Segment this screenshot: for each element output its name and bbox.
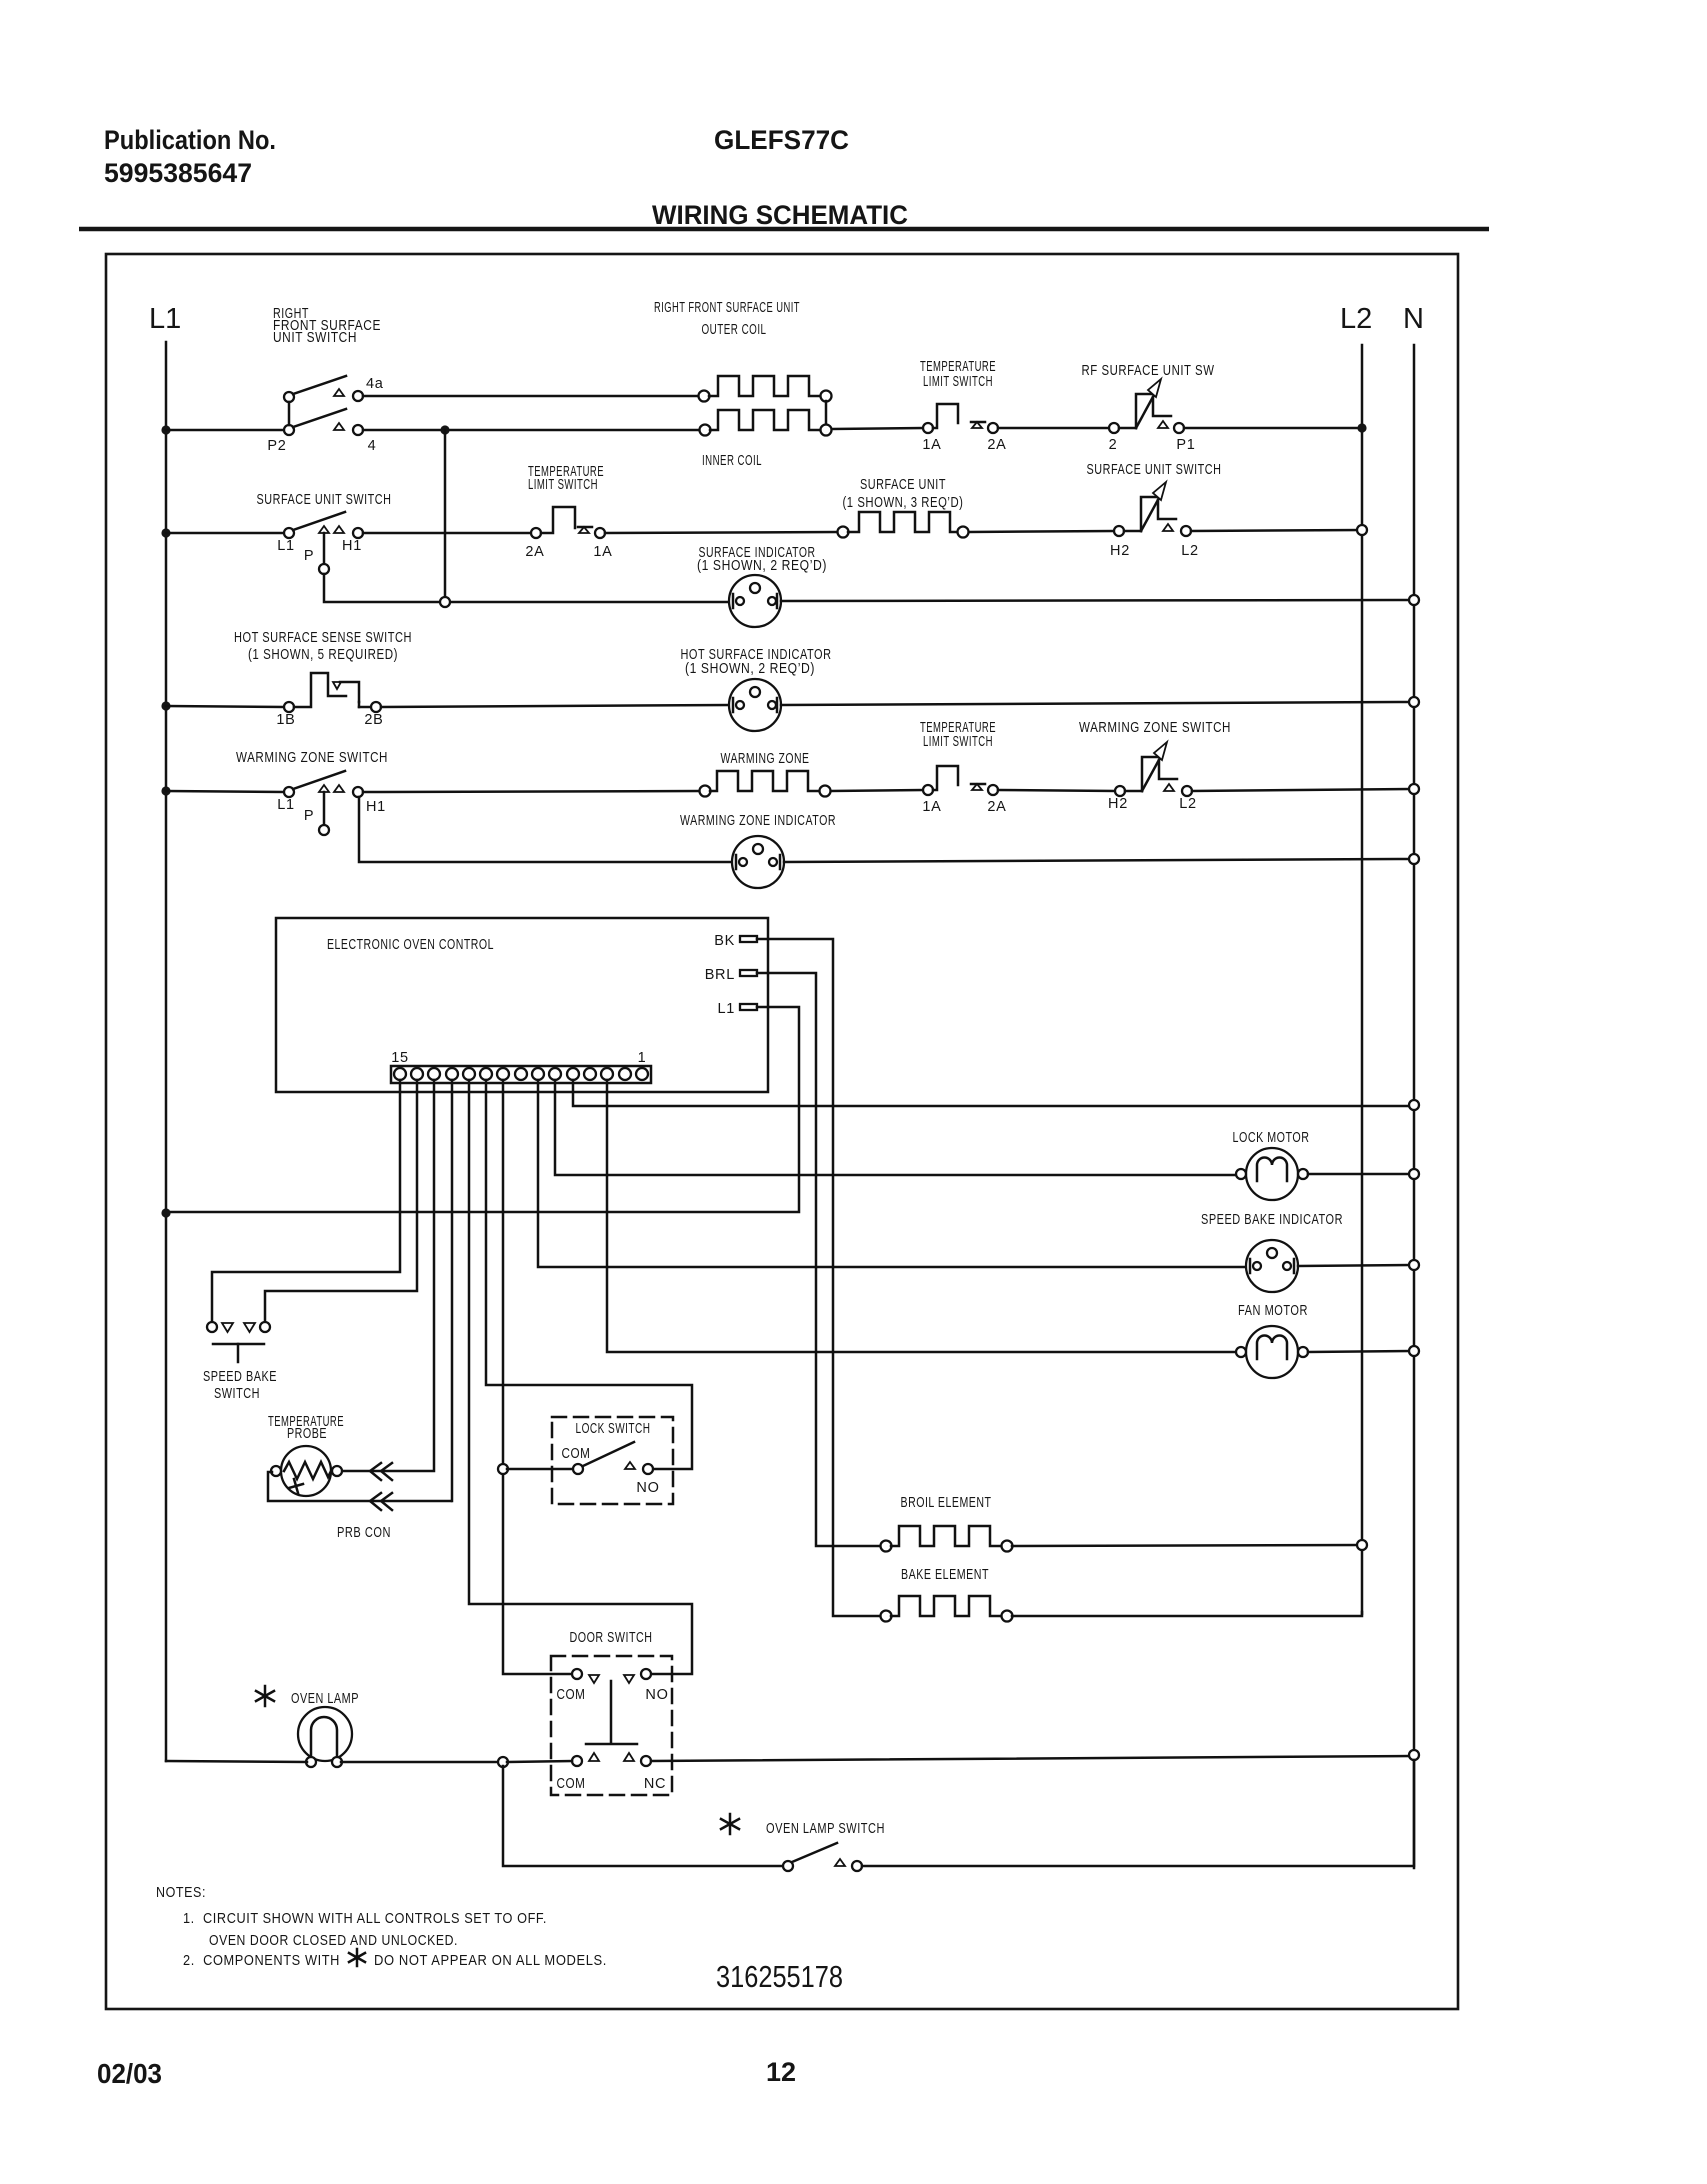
svg-text:NO: NO [636,1480,659,1496]
svg-text:PROBE: PROBE [287,1426,327,1442]
wire pin6 to lock motor [555,1080,1236,1175]
svg-text:INNER COIL: INNER COIL [702,453,762,469]
wire junction drop to oven lamp switch [503,1766,783,1866]
wire H1 to warming zone coil [363,791,700,792]
svg-text:H2: H2 [1108,796,1128,812]
wire bake element to L2 bottom corner [1012,1612,1362,1616]
svg-text:P1: P1 [1176,437,1195,453]
svg-text:P: P [304,548,314,564]
heater element: bake element [881,1596,1013,1622]
lamp: oven lamp [298,1707,352,1767]
pin 11 [463,1068,475,1080]
wire pin3 to fan motor [607,1080,1236,1352]
junction N row4 [1409,784,1419,794]
svg-text:(1 SHOWN, 2 REQ’D): (1 SHOWN, 2 REQ’D) [697,558,827,574]
svg-text:FAN MOTOR: FAN MOTOR [1238,1303,1308,1319]
wire speed bake indicator to N [1298,1265,1410,1266]
svg-text:WARMING ZONE SWITCH: WARMING ZONE SWITCH [236,750,388,766]
junction N fan motor row [1409,1346,1419,1356]
heater element: outer coil [699,376,832,402]
svg-text:BROIL ELEMENT: BROIL ELEMENT [901,1495,992,1511]
wire pin14 to speed bake switch right [265,1080,417,1322]
svg-text:1B: 1B [276,712,295,728]
connector chevrons PRB CON top [370,1463,392,1480]
pin 9 [497,1068,509,1080]
svg-text:316255178: 316255178 [716,1959,843,1994]
motor: fan motor [1236,1326,1308,1378]
switch: warming zone switch right (H2/L2) [1115,742,1192,796]
wire limit switch to RF switch [998,427,1109,430]
wire pin12 to probe return [451,1080,454,1501]
pin 8 [515,1068,527,1080]
svg-text:UNIT SWITCH: UNIT SWITCH [273,330,357,346]
indicator lamp: speed bake indicator [1246,1240,1298,1292]
pin 12 [446,1068,458,1080]
wire L1 to warming zone switch [166,791,284,792]
svg-text:BAKE ELEMENT: BAKE ELEMENT [901,1567,989,1583]
wire L1 to switch [166,532,284,535]
wire: L2 bus vertical [1361,345,1364,1614]
switch: RF surface unit switch (2/P1) [1109,379,1184,433]
wire hot surface indicator to N [781,702,1410,705]
wire oven lamp to junction [341,1761,499,1764]
wire pin10 to lock switch NO [486,1080,692,1469]
svg-text:N: N [1403,303,1424,335]
svg-text:(1 SHOWN, 2 REQ’D): (1 SHOWN, 2 REQ’D) [685,661,815,677]
svg-text:ELECTRONIC OVEN CONTROL: ELECTRONIC OVEN CONTROL [327,937,494,953]
wire bottom main: L1 to oven lamp [166,1761,307,1762]
svg-text:WARMING ZONE INDICATOR: WARMING ZONE INDICATOR [680,813,836,829]
indicator lamp: surface indicator [729,575,781,627]
wire coil to limit switch row4 [831,790,923,791]
wire junction to door switch COM lower [507,1761,572,1762]
switch: lock switch [573,1442,653,1474]
wire probe return loop [268,1472,451,1501]
junction dot row1/indicator drop [440,425,449,434]
svg-text:2: 2 [1109,437,1118,453]
lock switch dashed box [552,1417,673,1504]
svg-text:DO NOT APPEAR ON ALL MODELS.: DO NOT APPEAR ON ALL MODELS. [374,1952,607,1969]
svg-text:HOT SURFACE SENSE SWITCH: HOT SURFACE SENSE SWITCH [234,630,412,646]
svg-text:TEMPERATURE: TEMPERATURE [920,359,996,375]
wire oven lamp switch to N bottom corner [862,1760,1414,1866]
svg-text:LOCK SWITCH: LOCK SWITCH [576,1421,651,1437]
wire pin13 to temperature probe [342,1080,434,1471]
svg-text:WARMING ZONE SWITCH: WARMING ZONE SWITCH [1079,720,1231,736]
svg-text:02/03: 02/03 [97,2058,162,2089]
wire 2B to hot surface indicator [381,705,729,707]
junction N speed bake row [1409,1260,1419,1270]
pin 7 [532,1068,544,1080]
wire 4a contact to outer coil [363,395,699,398]
wire pin15 to speed bake switch left [212,1080,400,1322]
svg-text:LIMIT SWITCH: LIMIT SWITCH [923,734,993,750]
svg-text:H1: H1 [366,799,386,815]
svg-text:1: 1 [638,1050,647,1066]
svg-text:DOOR SWITCH: DOOR SWITCH [570,1630,653,1646]
svg-text:L2: L2 [1179,796,1197,812]
svg-text:L1: L1 [149,303,181,335]
wire: L1 bus vertical [165,342,168,1761]
wire L2 contact to L2 bus [1191,530,1362,531]
svg-text:BRL: BRL [705,967,735,983]
connector chevrons PRB CON bottom [370,1493,392,1510]
pin 10 [480,1068,492,1080]
svg-text:SURFACE UNIT SWITCH: SURFACE UNIT SWITCH [257,492,392,508]
svg-text:LOCK MOTOR: LOCK MOTOR [1233,1130,1310,1146]
junction dot L1 EOC row [161,1208,170,1217]
wire P contact down and right to surface indicator [324,574,729,602]
svg-text:NO: NO [645,1687,668,1703]
svg-text:L1: L1 [277,797,295,813]
svg-text:COM: COM [557,1687,586,1703]
junction dot L1 row2 [161,528,170,537]
wire warming zone indicator to N [784,859,1410,862]
svg-text:SPEED BAKE INDICATOR: SPEED BAKE INDICATOR [1201,1212,1343,1228]
svg-text:SURFACE UNIT SWITCH: SURFACE UNIT SWITCH [1087,462,1222,478]
switch: hot surface sense switch (1B/2B) [284,673,381,712]
pin 1 [636,1068,648,1080]
wire 4 contact to inner coil [363,429,700,432]
wire door NC to N [651,1756,1410,1761]
thermostat: temperature limit switch row2 (2A/1A) [531,507,605,538]
svg-text:OUTER COIL: OUTER COIL [702,322,767,338]
svg-text:RIGHT FRONT SURFACE UNIT: RIGHT FRONT SURFACE UNIT [654,300,800,316]
svg-text:4: 4 [368,438,377,454]
indicator lamp: warming zone indicator [732,836,784,888]
switch: warming zone switch (L1/P/H1) [284,771,363,835]
svg-text:SWITCH: SWITCH [214,1386,260,1402]
door switch linkage [586,1681,637,1744]
wire outer coil right terminal down to row1 [825,401,828,425]
svg-text:PRB CON: PRB CON [337,1525,391,1541]
wire L1 to sense switch [166,706,284,707]
wire pin7 to speed bake indicator [538,1080,1246,1267]
wire coil to surface unit switch right [969,531,1114,532]
heater element: broil element [881,1526,1013,1552]
pin 5 [567,1068,579,1080]
junction pin9 / lock switch COM [498,1464,508,1474]
svg-text:L1: L1 [717,1001,735,1017]
wire lock COM branch [507,1468,573,1471]
wire lock motor to N [1308,1173,1410,1176]
wire P1 to L2 bus [1184,427,1362,430]
svg-text:1A: 1A [922,437,941,453]
svg-text:2A: 2A [525,544,544,560]
svg-text:NOTES:: NOTES: [156,1884,206,1901]
wire drop from row1 to surface indicator row [444,430,447,602]
wire BRL stub right and down to broil element [757,973,881,1546]
wire warming zone switch to N [1192,789,1410,791]
svg-text:(1 SHOWN, 3 REQ’D): (1 SHOWN, 3 REQ’D) [843,495,964,511]
svg-text:RF SURFACE UNIT SW: RF SURFACE UNIT SW [1082,363,1215,379]
switch: surface unit switch right (H2/L2) [1114,482,1191,536]
svg-text:P: P [304,808,314,824]
svg-text:WIRING SCHEMATIC: WIRING SCHEMATIC [652,200,908,230]
junction oven lamp switch drop [498,1757,508,1767]
pin 15 [394,1068,406,1080]
door switch upper pole (COM/NO) [572,1669,651,1683]
svg-text:1. CIRCUIT SHOWN WITH ALL CON: 1. CIRCUIT SHOWN WITH ALL CONTROLS SET T… [183,1910,547,1927]
svg-text:LIMIT SWITCH: LIMIT SWITCH [923,374,993,390]
svg-text:2B: 2B [364,712,383,728]
thermostat: temperature limit switch row4 (1A/2A) [923,766,998,795]
terminal stub BK [740,936,757,942]
svg-text:(1 SHOWN, 5 REQUIRED): (1 SHOWN, 5 REQUIRED) [248,647,398,663]
junction row1-drop / indicator row [440,597,450,607]
svg-text:SURFACE UNIT: SURFACE UNIT [860,477,946,493]
svg-text:LIMIT SWITCH: LIMIT SWITCH [528,477,598,493]
wire surface indicator to N [781,600,1410,601]
pin 2 [619,1068,631,1080]
asterisk oven lamp [256,1686,274,1706]
switch: oven lamp switch [783,1843,862,1871]
pin 13 [428,1068,440,1080]
asterisk oven lamp switch [721,1814,739,1834]
svg-text:4a: 4a [366,376,384,392]
svg-text:COM: COM [562,1446,591,1462]
terminal stub L1 [740,1004,757,1010]
heater element: surface unit coil [838,512,969,538]
wire pin5 to N [573,1080,1410,1106]
wire limit switch to warming zone switch right [998,790,1115,791]
svg-text:L2: L2 [1181,543,1199,559]
junction N EOC neutral row [1409,1100,1419,1110]
pin 14 [411,1068,423,1080]
wire pin11 to door switch NO [469,1080,692,1674]
junction dot L1 row4 [161,786,170,795]
pin 6 [549,1068,561,1080]
motor: lock motor [1236,1148,1308,1200]
junction N lock motor row [1409,1169,1419,1179]
svg-text:OVEN LAMP SWITCH: OVEN LAMP SWITCH [766,1821,885,1837]
schematic border frame [106,254,1458,2009]
junction dot L1 row3 [161,701,170,710]
wire broil element to L2 [1012,1545,1362,1546]
wire H1 to limit switch [363,532,531,535]
indicator lamp: hot surface indicator [729,679,781,731]
svg-text:1A: 1A [922,799,941,815]
svg-text:1A: 1A [593,544,612,560]
svg-text:SPEED BAKE: SPEED BAKE [203,1369,277,1385]
svg-text:12: 12 [766,2057,796,2087]
title underline rule [79,227,1489,232]
junction dot L1 row1 [161,425,170,434]
svg-text:COM: COM [557,1776,586,1792]
svg-text:H2: H2 [1110,543,1130,559]
pin 3 [601,1068,613,1080]
wire H1 down and right to warming zone indicator [359,797,732,862]
heater element: warming zone coil [700,771,831,797]
wire fan motor to N [1308,1351,1410,1352]
svg-text:5995385647: 5995385647 [104,158,252,188]
svg-text:15: 15 [391,1050,409,1066]
svg-text:GLEFS77C: GLEFS77C [714,125,849,155]
resistor: temperature probe [271,1446,342,1496]
switch: speed bake switch [207,1322,270,1362]
svg-text:NC: NC [644,1776,666,1792]
svg-text:H1: H1 [342,538,362,554]
junction dot L2 row1 [1357,423,1366,432]
terminal stub BRL [740,970,757,976]
door switch dashed box [551,1656,672,1795]
wire L1 stub right, down, left to L1 bus [170,1007,799,1212]
wire pin9 to lock switch COM and door switch COM [503,1080,572,1674]
junction L2 row2 [1357,525,1367,535]
junction N surface indicator row [1409,595,1419,605]
heater element: inner coil [700,410,832,436]
thermostat: temperature limit switch row1 (1A/2A) [923,404,998,433]
junction N row3 [1409,697,1419,707]
svg-text:2A: 2A [987,799,1006,815]
wire L1 to P2 [166,429,284,432]
svg-text:OVEN DOOR CLOSED AND UNLOCKED.: OVEN DOOR CLOSED AND UNLOCKED. [209,1932,458,1949]
switch SW1 right front surface unit switch (P2/4a/4) [284,376,363,435]
pin 4 [584,1068,596,1080]
svg-text:L2: L2 [1340,303,1372,335]
junction L2 broil row [1357,1540,1367,1550]
switch: surface unit switch (L1/P/H1) [284,512,363,574]
wire limit switch to surface unit coil [605,532,838,533]
junction N warming zone indicator row [1409,854,1419,864]
svg-text:2A: 2A [987,437,1006,453]
note 2 asterisk symbol [349,1949,365,1966]
svg-text:WARMING ZONE: WARMING ZONE [721,751,810,767]
svg-text:Publication No.: Publication No. [104,125,276,155]
wire inner coil to limit switch [832,428,923,429]
wire BK stub right and down to bake element [757,939,881,1616]
svg-text:BK: BK [714,933,735,949]
connector strip P1..P15 [391,1066,651,1083]
wire: N bus vertical [1413,345,1416,1868]
svg-text:OVEN LAMP: OVEN LAMP [291,1691,359,1707]
junction N bottom row [1409,1750,1419,1760]
svg-text:P2: P2 [267,438,286,454]
door switch lower pole (COM/NC) [572,1753,651,1766]
svg-text:L1: L1 [277,538,295,554]
svg-text:2. COMPONENTS WITH: 2. COMPONENTS WITH [183,1952,340,1969]
EOC box [276,918,768,1092]
